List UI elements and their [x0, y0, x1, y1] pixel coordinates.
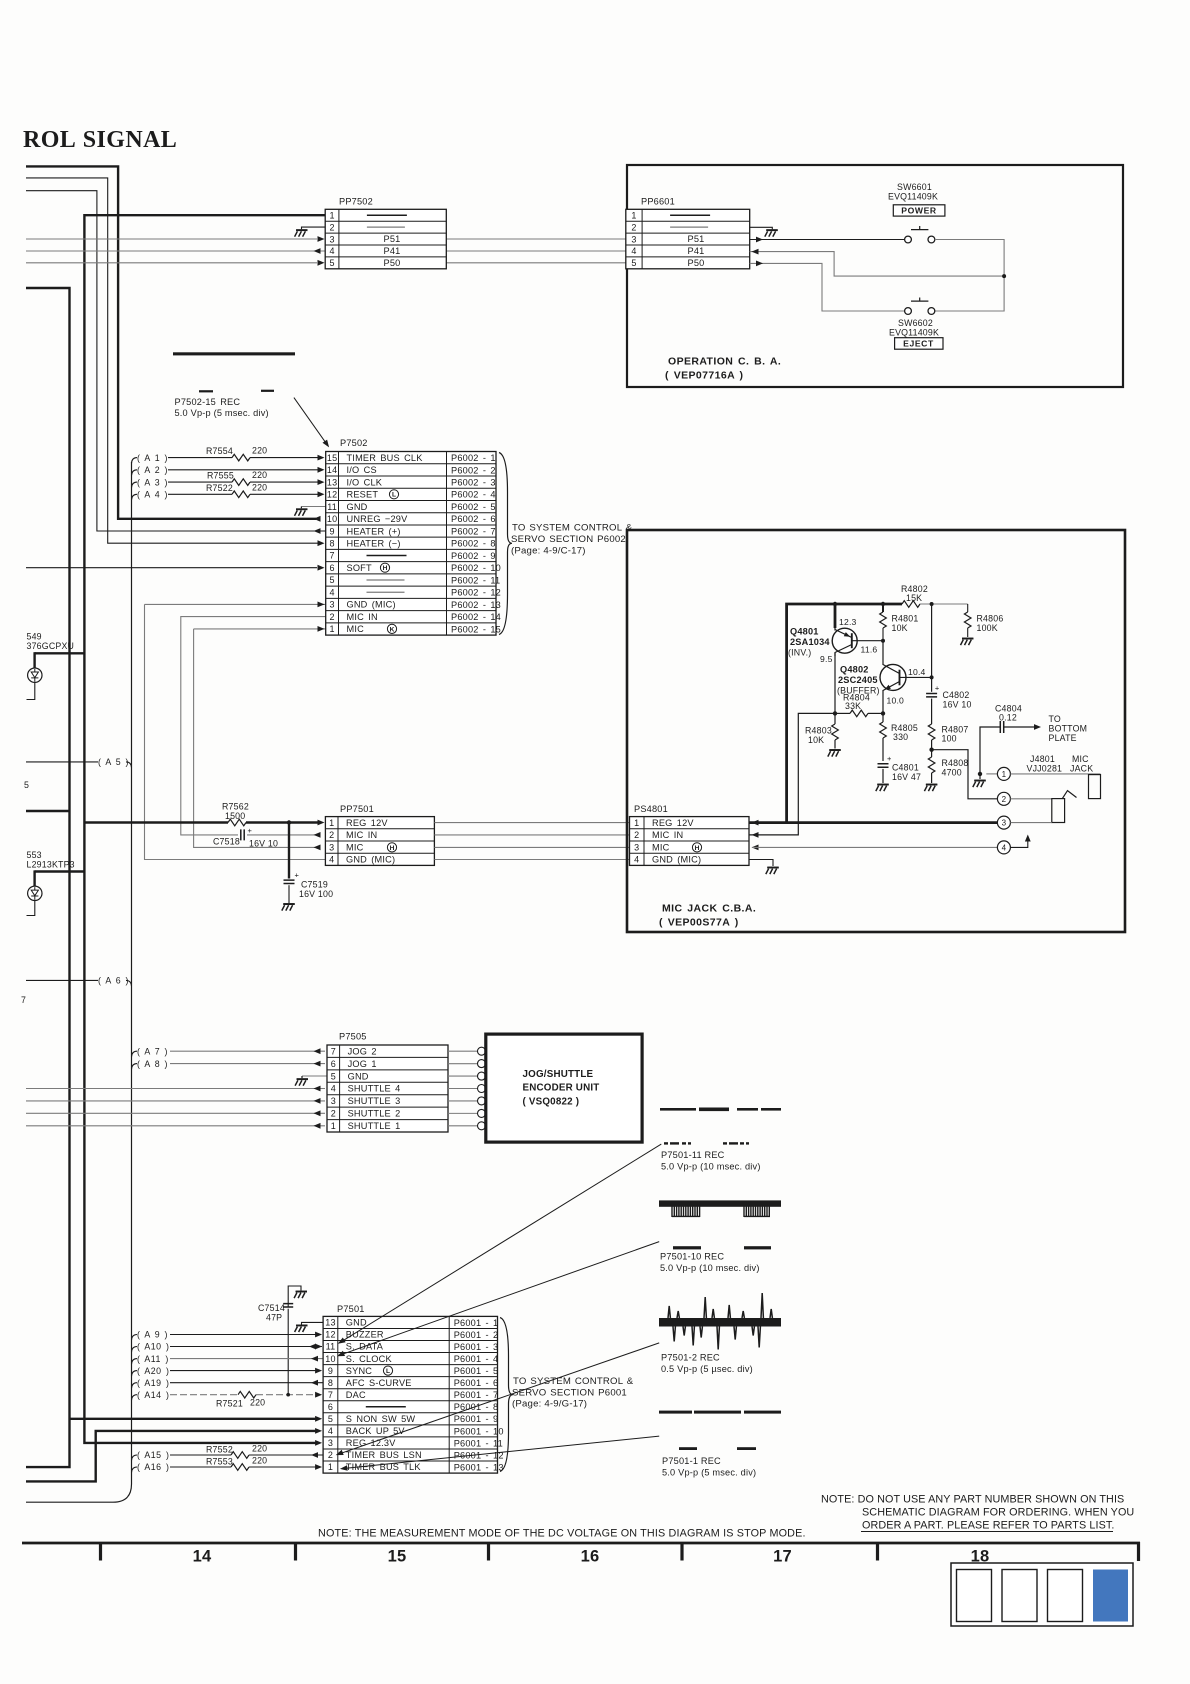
wire jack4 stub with up arrow	[1010, 835, 1030, 848]
svg-text:1: 1	[329, 624, 334, 634]
arrows into P7501 thick rows 5 4 3	[315, 1416, 322, 1422]
svg-text:8: 8	[328, 1378, 333, 1388]
svg-text:5: 5	[329, 575, 334, 585]
capacitor C7518 16V10	[213, 826, 278, 849]
svg-text:TO SYSTEM CONTROL &: TO SYSTEM CONTROL &	[513, 1376, 634, 1387]
svg-text:4: 4	[329, 246, 334, 256]
PP6601 pin 4 row	[631, 246, 636, 256]
svg-text:( A 6 ): ( A 6 )	[98, 976, 129, 986]
svg-text:100: 100	[942, 734, 957, 744]
J4801 VJJ0281 MIC JACK labels	[1027, 754, 1094, 773]
P7502 pin 2 row	[329, 612, 500, 622]
wire Q4801 collector down to node	[834, 653, 836, 713]
svg-text:2: 2	[329, 222, 334, 232]
svg-text:1: 1	[328, 1462, 333, 1472]
svg-text:JOG 2: JOG 2	[348, 1046, 377, 1056]
resistor R4801 10K	[880, 604, 919, 641]
svg-text:ENCODER UNIT: ENCODER UNIT	[523, 1083, 600, 1094]
svg-text:REG 12V: REG 12V	[652, 818, 694, 828]
svg-text:P41: P41	[384, 246, 401, 256]
PS4801 pin 1 row	[634, 818, 694, 828]
svg-text:SW6602: SW6602	[898, 318, 933, 328]
wire R4802 to R4806	[920, 603, 968, 605]
svg-text:2: 2	[331, 1109, 336, 1119]
svg-text:EVQ11409K: EVQ11409K	[889, 328, 939, 338]
svg-text:P6002 - 14: P6002 - 14	[451, 612, 501, 622]
svg-text:GND (MIC): GND (MIC)	[347, 600, 396, 610]
P7505 pin 1 row	[331, 1121, 401, 1131]
svg-text:220: 220	[252, 470, 267, 480]
switch SW6601 POWER	[905, 226, 935, 243]
svg-text:R7521: R7521	[216, 1399, 243, 1409]
waveform P7501-11 trace	[660, 1108, 781, 1145]
svg-text:11.6: 11.6	[861, 645, 878, 655]
wire: thick branch S NON SW 5W to P7501 pin5	[70, 1418, 318, 1420]
jack contact circle 3	[997, 816, 1010, 829]
OPERATION C.B.A. box outline	[627, 165, 1123, 387]
svg-text:SYNC: SYNC	[346, 1366, 372, 1376]
svg-text:14: 14	[193, 1548, 212, 1566]
svg-text:S. CLOCK: S. CLOCK	[346, 1354, 393, 1364]
svg-text:220: 220	[250, 1398, 265, 1408]
svg-text:RESET: RESET	[347, 490, 379, 500]
resistor R7552 220	[206, 1444, 267, 1459]
svg-text:7: 7	[329, 551, 334, 561]
svg-text:MIC JACK C.B.A.: MIC JACK C.B.A.	[662, 903, 756, 915]
resistor R7555 220	[207, 470, 267, 486]
svg-text:12: 12	[325, 1330, 335, 1340]
svg-text:C7514: C7514	[258, 1303, 285, 1313]
jack contact circle 2	[997, 792, 1010, 805]
svg-text:EVQ11409K: EVQ11409K	[888, 192, 938, 202]
arrow out of PP7501 pin2	[314, 832, 321, 838]
wire below LED D7549 to left edge	[27, 682, 35, 699]
svg-text:SHUTTLE 1: SHUTTLE 1	[348, 1121, 401, 1131]
svg-text:P6001 - 9: P6001 - 9	[454, 1414, 499, 1424]
connector PS4801 body	[630, 817, 750, 866]
svg-text:P6001 - 6: P6001 - 6	[454, 1378, 499, 1388]
wire jack1 to sleeve	[1010, 773, 1100, 775]
svg-text:12: 12	[327, 490, 337, 500]
wire PP6601 pin4 to junction (P41)	[750, 252, 1004, 277]
svg-text:P7501: P7501	[337, 1304, 365, 1314]
svg-text:MIC: MIC	[346, 842, 364, 852]
svg-text:VJJ0281: VJJ0281	[1027, 763, 1063, 773]
svg-text:P6001 - 11: P6001 - 11	[454, 1438, 503, 1448]
resistor R4808 4700 to ground	[924, 750, 968, 791]
svg-text:P7501-10 REC: P7501-10 REC	[660, 1252, 724, 1262]
svg-text:2: 2	[1002, 795, 1007, 804]
connector PP6601 body	[626, 209, 750, 268]
Q4801 labels	[788, 627, 830, 658]
LED D7549 branch wire (thick)	[35, 652, 85, 654]
svg-text:9.5: 9.5	[820, 654, 833, 664]
svg-text:16V 10: 16V 10	[943, 700, 972, 710]
pointer line waveform to P7501 pin11	[341, 1144, 662, 1342]
svg-text:C4802: C4802	[943, 690, 970, 700]
svg-text:+: +	[248, 826, 253, 835]
node junction R4804 / R4805 / Q4802 emitter	[881, 711, 885, 715]
svg-text:+: +	[295, 871, 300, 880]
svg-text:17: 17	[773, 1548, 792, 1566]
connector PP7502 body	[325, 209, 446, 268]
P7501 pin 4 row	[328, 1426, 504, 1436]
svg-text:R7553: R7553	[206, 1456, 233, 1466]
wire: thin from left edge y=178 to P7502 pin8 (HEATER -)	[26, 178, 318, 543]
svg-text:330: 330	[893, 732, 908, 742]
svg-text:7: 7	[328, 1390, 333, 1400]
wire: thick branch y=811 from left edge to x=69.5 bus	[26, 810, 70, 812]
svg-text:10: 10	[325, 1354, 335, 1364]
arrow out of PP6601 pin3	[756, 237, 763, 243]
svg-text:R7554: R7554	[206, 446, 233, 456]
svg-text:47P: 47P	[266, 1313, 282, 1323]
svg-text:16V 47: 16V 47	[892, 772, 921, 782]
svg-text:P7502: P7502	[340, 438, 368, 448]
svg-text:5.0 Vp-p (5 msec. div): 5.0 Vp-p (5 msec. div)	[175, 408, 269, 418]
PP6601 pin 5 row	[631, 258, 636, 268]
wire (A11) to P7501 pin10 S.CLOCK	[132, 1354, 324, 1364]
svg-text:( VEP00S77A ): ( VEP00S77A )	[659, 917, 739, 929]
waveform label P7501-1 REC	[662, 1456, 756, 1478]
svg-text:( VSQ0822 ): ( VSQ0822 )	[523, 1097, 580, 1108]
svg-text:9: 9	[328, 1366, 333, 1376]
svg-text:0.12: 0.12	[999, 713, 1017, 723]
P7501 pin 10 row	[325, 1354, 498, 1364]
capacitor C4801 16V47 to ground	[876, 754, 921, 791]
P7505 pin 4 row	[331, 1084, 401, 1094]
arrow into PP7502 pin3	[318, 236, 325, 242]
svg-text:1: 1	[1002, 770, 1007, 779]
P7502 pin 6 row	[329, 563, 500, 573]
wire P7502 pin2 MIC IN to C7518	[181, 617, 326, 835]
svg-text:5.0 Vp-p (10 msec. div): 5.0 Vp-p (10 msec. div)	[661, 1162, 761, 1172]
PP6601 pin 1 row	[631, 210, 710, 220]
svg-text:( A10 ): ( A10 )	[137, 1342, 169, 1352]
svg-text:P6002 - 15: P6002 - 15	[451, 624, 501, 634]
svg-text:15: 15	[327, 453, 337, 463]
waveform label P7501-2 REC	[661, 1353, 753, 1375]
wire MIC IN tap from collector node to PS4801 pin2	[749, 713, 835, 835]
svg-text:H: H	[383, 565, 388, 572]
svg-text:R4803: R4803	[805, 726, 832, 736]
ruler ticks	[101, 1543, 878, 1561]
svg-text:4: 4	[631, 246, 636, 256]
PP7501 pin 2 row	[329, 830, 377, 840]
svg-text:NOTE: THE MEASUREMENT MODE OF: NOTE: THE MEASUREMENT MODE OF THE DC VOL…	[318, 1528, 806, 1540]
wire (A15) to P7501 pin2 TIMER BUS LSN	[132, 1450, 324, 1460]
svg-text:P51: P51	[384, 234, 401, 244]
svg-text:( VEP07716A ): ( VEP07716A )	[665, 370, 743, 382]
P7505 pin 6 row	[331, 1059, 377, 1069]
svg-text:3: 3	[1002, 819, 1007, 828]
MIC JACK C.B.A. box outline	[627, 530, 1125, 932]
ground at jack contact 1 node	[973, 774, 986, 787]
svg-text:MIC: MIC	[652, 842, 670, 852]
junction dot C7519 tap	[287, 820, 291, 824]
P7501 pin 12 row	[325, 1330, 498, 1340]
wire: grey line left edge to PP7502 pin3 (P51)	[26, 238, 317, 240]
svg-text:K: K	[390, 626, 395, 633]
P7505 pin 7 row	[331, 1046, 377, 1056]
wire (A16) to P7501 pin1 TIMER BUS TLK	[132, 1462, 323, 1472]
resistor R4805 330	[880, 713, 918, 761]
LED D7549 symbol	[28, 652, 42, 682]
svg-text:P6001 - 7: P6001 - 7	[454, 1390, 499, 1400]
resistor R7521 220	[216, 1391, 265, 1408]
svg-text:(INV.): (INV.)	[788, 648, 811, 658]
svg-text:PP7501: PP7501	[340, 804, 374, 814]
svg-text:33K: 33K	[845, 701, 861, 711]
wire thick REG riser to amp	[787, 604, 902, 823]
svg-text:L2913KTP3: L2913KTP3	[27, 860, 75, 870]
resistor R4803 10K to ground	[805, 713, 841, 756]
arrow into PP7501 pin1	[318, 820, 325, 826]
wire SHUTTLE 3 from left edge	[26, 1100, 325, 1102]
svg-text:8: 8	[329, 539, 334, 549]
svg-text:PLATE: PLATE	[1049, 733, 1077, 743]
svg-text:6: 6	[329, 563, 334, 573]
wire (A9) to P7501 pin12 BUZZER	[132, 1330, 323, 1340]
resistor R7522 220	[206, 482, 267, 497]
P7502 pin 1 row	[329, 624, 500, 634]
PS4801 circled H on MIC row3	[692, 843, 701, 852]
PP6601 pin 2 row	[631, 222, 708, 232]
node junction Q4801 collector / R4803 / R4804	[833, 711, 837, 715]
waveform P7502-15 trace	[173, 352, 295, 392]
arrow into P7502 pin3	[318, 602, 325, 608]
jack sleeve symbol	[1089, 775, 1101, 799]
arrows into P7502 pins 15-12	[318, 455, 325, 461]
svg-text:GND (MIC): GND (MIC)	[346, 855, 395, 865]
svg-text:( A 2 ): ( A 2 )	[137, 465, 168, 475]
PP7501 pin 3 row	[329, 842, 364, 852]
wire: (A5) line from left edge	[26, 761, 98, 763]
wire P7502 pin3 GND(MIC) to PP7501 pin4	[145, 604, 326, 859]
svg-text:2: 2	[329, 830, 334, 840]
jack contact circle 1	[986, 767, 1010, 780]
svg-text:P7501-11 REC: P7501-11 REC	[661, 1150, 725, 1160]
brace bracket right of P7501	[500, 1318, 513, 1472]
svg-text:5: 5	[631, 258, 636, 268]
junction dots on amp rail	[833, 602, 837, 606]
svg-text:P50: P50	[384, 258, 401, 268]
svg-text:H: H	[390, 845, 395, 852]
waveform label P7501-10 REC	[660, 1252, 760, 1274]
LED D7553 symbol	[28, 870, 42, 900]
svg-text:11: 11	[326, 1342, 336, 1352]
svg-text:1: 1	[331, 1121, 336, 1131]
svg-text:6: 6	[328, 1402, 333, 1412]
wire PP6601 pin5 to SW6602 (P50)	[750, 263, 905, 311]
PP7502 pin 4 row	[329, 246, 334, 256]
svg-text:(Page: 4-9/C-17): (Page: 4-9/C-17)	[511, 546, 586, 557]
P7502 pin 7 row	[329, 551, 495, 561]
wire Q4802 base to C4802 node	[900, 676, 932, 678]
svg-text:P6002 - 3: P6002 - 3	[451, 478, 496, 488]
svg-text:13: 13	[327, 477, 337, 487]
P7501 pin13 GND stub and ground	[295, 1322, 324, 1332]
svg-text:ROL SIGNAL: ROL SIGNAL	[23, 127, 177, 153]
svg-text:( A20 ): ( A20 )	[137, 1366, 169, 1376]
svg-text:P6002 - 10: P6002 - 10	[451, 563, 501, 573]
svg-text:5: 5	[331, 1071, 336, 1081]
svg-text:( A15 ): ( A15 )	[137, 1450, 169, 1460]
svg-text:Q4802: Q4802	[840, 665, 869, 675]
svg-text:HEATER (−): HEATER (−)	[347, 539, 401, 549]
wire: A-net vertical bus x=131.5	[26, 462, 132, 1502]
arrows into PS4801 pins 1-3	[752, 820, 759, 826]
P7505 pin5 GND stub and ground	[295, 1076, 327, 1086]
svg-text:220: 220	[252, 446, 267, 456]
svg-text:REG 12V: REG 12V	[346, 818, 388, 828]
wire SHUTTLE 1 from left edge	[26, 1125, 325, 1127]
wire (A7) to P7505 pin7	[132, 1046, 326, 1056]
arrow into P7502 pin6	[318, 565, 325, 571]
svg-text:10: 10	[327, 514, 337, 524]
junction dot C7514 on DAC line	[286, 1393, 290, 1397]
wire: thick bus from left edge y=288 down to S NON SW row and back to edge	[26, 288, 70, 1467]
svg-text:ORDER A PART. PLEASE REFER TO: ORDER A PART. PLEASE REFER TO PARTS LIST…	[862, 1520, 1115, 1532]
resistor R4806 100K to ground	[961, 604, 1004, 645]
svg-text:P7502-15 REC: P7502-15 REC	[175, 397, 241, 407]
svg-text:PP6601: PP6601	[641, 197, 675, 207]
JOG/SHUTTLE ENCODER UNIT box	[486, 1034, 642, 1142]
svg-text:P6002 - 11: P6002 - 11	[451, 575, 500, 585]
svg-text:4: 4	[634, 855, 639, 865]
svg-text:2: 2	[328, 1450, 333, 1460]
svg-text:( A19 ): ( A19 )	[137, 1378, 169, 1388]
svg-text:MIC IN: MIC IN	[652, 830, 683, 840]
svg-text:9: 9	[329, 526, 334, 536]
P7505 pin 5 row	[331, 1071, 369, 1081]
resistor R4807 100	[928, 699, 968, 750]
arrow out of PP7502 pin4	[314, 248, 321, 254]
node A5	[98, 757, 132, 767]
svg-text:10K: 10K	[808, 735, 824, 745]
transistor Q4802 2SC2405 (BUFFER)	[880, 641, 906, 714]
svg-text:( A 8 ): ( A 8 )	[137, 1059, 168, 1069]
resistor R4802 15K	[901, 584, 928, 607]
P7502 pin 8 row	[329, 539, 495, 549]
svg-text:P6002 - 7: P6002 - 7	[451, 526, 496, 536]
svg-text:PS4801: PS4801	[634, 804, 668, 814]
svg-text:R7562: R7562	[222, 802, 249, 812]
svg-text:P6001 - 13: P6001 - 13	[454, 1462, 504, 1472]
svg-text:SCHEMATIC DIAGRAM FOR ORDERING: SCHEMATIC DIAGRAM FOR ORDERING. WHEN YOU	[862, 1507, 1134, 1519]
svg-text:7: 7	[331, 1046, 336, 1056]
jack tip symbol with spring	[1052, 791, 1077, 823]
svg-text:P6002 - 4: P6002 - 4	[451, 490, 496, 500]
svg-text:DAC: DAC	[346, 1390, 366, 1400]
svg-text:( A 9 ): ( A 9 )	[137, 1330, 168, 1340]
svg-text:3: 3	[328, 1438, 333, 1448]
svg-text:10.0: 10.0	[887, 696, 905, 706]
svg-text:P6001 - 4: P6001 - 4	[454, 1354, 499, 1364]
capacitor C7519 16V100 to ground	[282, 823, 333, 911]
ruler right end bracket	[1137, 1542, 1140, 1561]
wire thick +12V branch to R7562 and PP7501 pin1	[84, 821, 228, 823]
resistor R7553 220	[206, 1456, 267, 1471]
svg-text:P6001 - 8: P6001 - 8	[454, 1402, 499, 1412]
wire SW6601 right to vertical junction	[935, 240, 1004, 312]
svg-text:10K: 10K	[892, 623, 908, 633]
svg-text:UNREG −29V: UNREG −29V	[347, 514, 409, 524]
resistor R7554 220	[206, 446, 267, 461]
svg-text:1: 1	[631, 210, 636, 220]
svg-text:3: 3	[631, 234, 636, 244]
PS4801 pin4 ground	[749, 860, 779, 875]
cable PP7501 to PS4801 4 lines	[434, 823, 629, 860]
wire (A19) to P7501 pin8 AFC S-CURVE	[132, 1378, 324, 1388]
JOG/SHUTTLE ENCODER UNIT label	[523, 1069, 600, 1108]
svg-text:P6001 - 1: P6001 - 1	[454, 1318, 499, 1328]
P7502 pin 11 row	[327, 502, 495, 512]
svg-text:( A16 ): ( A16 )	[137, 1462, 169, 1472]
waveform label P7501-11 REC	[661, 1150, 761, 1172]
svg-text:P6002 - 13: P6002 - 13	[451, 600, 501, 610]
P7501 circled L on SYNC	[383, 1366, 392, 1375]
svg-text:15K: 15K	[906, 593, 922, 603]
P7501 pin 2 row	[328, 1450, 504, 1460]
svg-text:P50: P50	[688, 258, 705, 268]
svg-text:H: H	[695, 845, 700, 852]
svg-text:15: 15	[388, 1548, 407, 1566]
svg-text:PP7502: PP7502	[339, 197, 373, 207]
svg-text:3: 3	[329, 234, 334, 244]
P7501 pin 8 row	[328, 1378, 499, 1388]
P7502 pin 5 row	[329, 575, 500, 585]
P7502 circled letter L on RESET	[389, 490, 398, 499]
svg-text:SERVO SECTION P6001: SERVO SECTION P6001	[512, 1388, 627, 1399]
svg-text:5.0 Vp-p (10 msec. div): 5.0 Vp-p (10 msec. div)	[660, 1263, 760, 1273]
svg-text:P6002 - 8: P6002 - 8	[451, 539, 496, 549]
P7501 pin 7 row	[328, 1390, 499, 1400]
svg-text:549: 549	[27, 632, 42, 642]
svg-text:TO: TO	[1049, 714, 1061, 724]
P7502 circled letter K on MIC	[387, 624, 396, 633]
connector PP7501 body	[325, 817, 434, 866]
svg-text:Q4801: Q4801	[790, 627, 819, 637]
svg-text:TIMER BUS LSN: TIMER BUS LSN	[346, 1450, 422, 1460]
arrow out of PP7501 pin3	[314, 845, 321, 851]
svg-text:220: 220	[252, 482, 267, 492]
wire: (A6) line from left edge	[26, 979, 98, 981]
Q4802 labels	[837, 665, 880, 696]
capacitor C4802 16V10	[926, 604, 971, 710]
svg-text:1: 1	[634, 818, 639, 828]
P7502 pin 15 row	[327, 453, 496, 463]
wire (A8) to P7505 pin6	[132, 1059, 326, 1069]
P7501 pin 1 row	[328, 1462, 504, 1472]
svg-text:C7519: C7519	[301, 880, 328, 890]
svg-text:1: 1	[329, 210, 334, 220]
svg-text:0.5 Vp-p (5 µsec. div): 0.5 Vp-p (5 µsec. div)	[661, 1364, 753, 1374]
arrow into PP7502 pin5	[318, 260, 325, 266]
svg-text:JACK: JACK	[1070, 763, 1093, 773]
wire R7562 to PP7501 pin1 with junction	[246, 821, 318, 823]
svg-text:POWER: POWER	[901, 205, 937, 215]
svg-text:3: 3	[329, 600, 334, 610]
svg-text:7: 7	[21, 995, 26, 1005]
svg-text:TO SYSTEM CONTROL &: TO SYSTEM CONTROL &	[512, 523, 633, 534]
P7502 pin 14 row	[327, 465, 496, 475]
P7505 to encoder contact wires and circles	[448, 1047, 486, 1130]
P7501 pin 5 row	[328, 1414, 499, 1424]
svg-text:( A11 ): ( A11 )	[137, 1354, 169, 1364]
transistor Q4801 2SA1034 (INV.)	[832, 628, 857, 656]
svg-text:4700: 4700	[942, 768, 962, 778]
